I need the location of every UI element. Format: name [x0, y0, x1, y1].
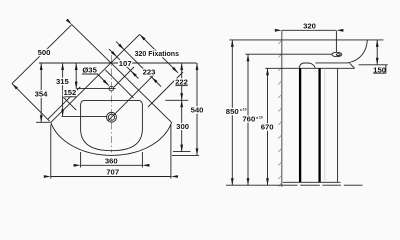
svg-text:▲10: ▲10 [255, 115, 262, 119]
svg-text:540: 540 [191, 105, 204, 114]
dim 320 extension down to tap [335, 31, 337, 52]
bowl top extension line [165, 99, 188, 101]
pedestal faint line [324, 69, 326, 183]
svg-text:354: 354 [35, 89, 49, 98]
tap hole inner slot [336, 54, 340, 56]
svg-text:320 Fixations: 320 Fixations [135, 51, 179, 58]
left fixation hole tick on edge [63, 97, 76, 110]
bulge bottom extension line [172, 154, 199, 156]
svg-text:707: 707 [106, 168, 119, 177]
svg-text:300: 300 [176, 122, 189, 131]
dim 222 [181, 63, 183, 100]
svg-text:Ø35: Ø35 [82, 66, 97, 75]
drain extension line [62, 115, 107, 117]
basin right back edge (extended beyond corner for 500 dim) [72, 25, 172, 123]
dim 670 [267, 68, 269, 185]
pedestal front line [337, 68, 339, 182]
bowl bottom extension line [173, 151, 191, 153]
basin underside line with 670 extension [265, 67, 354, 69]
pedestal thick mid line [318, 68, 320, 182]
dim 320 fixations line [140, 34, 178, 72]
svg-text:670: 670 [261, 123, 274, 132]
dim 500 line [12, 25, 72, 84]
pedestal bottom edge [283, 181, 341, 183]
floor reference line [226, 184, 278, 186]
basin left back edge (extended beyond corner for fixation dims) [51, 34, 140, 122]
svg-text:360: 360 [105, 157, 118, 166]
svg-text:▲10: ▲10 [239, 108, 246, 112]
svg-text:315: 315 [56, 77, 70, 86]
pedestal thick back line [299, 68, 301, 182]
deck crease line right [105, 70, 133, 98]
svg-text:760: 760 [242, 114, 255, 123]
svg-text:223: 223 [143, 67, 156, 76]
dim 360 extensions [81, 152, 143, 168]
tap hole oval (side) [332, 52, 342, 56]
dim 315 [62, 63, 64, 116]
svg-text:320: 320 [303, 22, 316, 31]
tap hole circle [109, 86, 114, 91]
basin inner underside line [315, 62, 348, 64]
svg-text:850: 850 [226, 107, 239, 116]
dim 707 extensions [51, 125, 171, 179]
inner bowl outline [81, 100, 143, 150]
dim 150 bottom extension [359, 64, 388, 66]
dim 107 extension through tap hole [114, 67, 134, 87]
dim 320 far extension crossing right edge [148, 72, 183, 107]
dim 760 [247, 54, 249, 185]
svg-text:107: 107 [119, 59, 132, 68]
dim 223 line with outside arrows [116, 42, 161, 87]
dim 107 line with outside arrows [109, 49, 139, 79]
dim 300 [181, 100, 183, 151]
dim 500 lower extension [12, 84, 50, 122]
dim 320 (side) [282, 29, 337, 31]
152 diagonal dimension line [48, 87, 80, 119]
dim 540 [196, 63, 198, 155]
deck top line with 850 and 150 extensions [229, 39, 383, 41]
siphon hump on pedestal [299, 63, 315, 68]
basin front profile curve [348, 40, 368, 63]
dim 152 vertical [75, 63, 77, 89]
wall hatching [278, 40, 281, 186]
svg-text:500: 500 [38, 48, 51, 57]
floor dashes [278, 184, 363, 186]
drain inner circle [108, 114, 114, 120]
wall line [281, 31, 283, 187]
centerline (vertical dash-dot axis) [110, 55, 112, 153]
dim 354 [40, 63, 42, 122]
left vertex tick [36, 121, 50, 123]
drain outer circle [107, 112, 117, 122]
top horizontal extension line [39, 62, 197, 64]
dim 707 [51, 176, 171, 178]
tap hole horizontal line [77, 88, 116, 90]
dim 150 [376, 40, 378, 65]
basin front bulge outline [51, 122, 172, 155]
svg-text:152: 152 [63, 88, 76, 97]
deck surface line with 760 extension [245, 53, 332, 55]
drain slash / 223 extension line through drain [108, 74, 155, 121]
label 150 boxed [373, 65, 386, 73]
dim 360 [81, 164, 143, 166]
svg-text:150: 150 [373, 65, 386, 74]
dim 850 [231, 40, 233, 185]
